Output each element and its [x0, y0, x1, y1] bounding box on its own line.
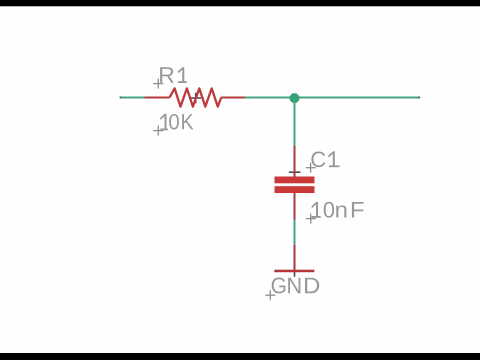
label R1 [160, 67, 187, 83]
resistor R1 [145, 88, 246, 106]
label GND origin cross [265, 290, 275, 300]
wire: vertical net C1 to GND [294, 220, 296, 245]
ground [274, 245, 314, 273]
label 10nF origin cross [306, 214, 316, 224]
capacitor C1 [275, 146, 315, 220]
ground origin cross [289, 266, 300, 277]
label 10K value [160, 114, 193, 131]
wire: net segment from R1 to junction and right [245, 97, 420, 99]
wire: net segment left of R1 [120, 97, 145, 99]
bottom letterbox bar [0, 353, 480, 360]
resistor R1 origin cross [191, 93, 202, 104]
label 10nF value [312, 202, 364, 218]
capacitor C1 origin cross [289, 167, 301, 178]
label GND [272, 277, 286, 293]
node junction dot [290, 93, 300, 103]
label C1 [311, 151, 339, 167]
label 10K origin cross [153, 126, 163, 136]
label C1 origin cross [306, 163, 316, 173]
top letterbox bar [0, 0, 480, 6]
label R1 origin cross [153, 79, 163, 89]
wire: vertical net junction to C1 [294, 98, 296, 146]
